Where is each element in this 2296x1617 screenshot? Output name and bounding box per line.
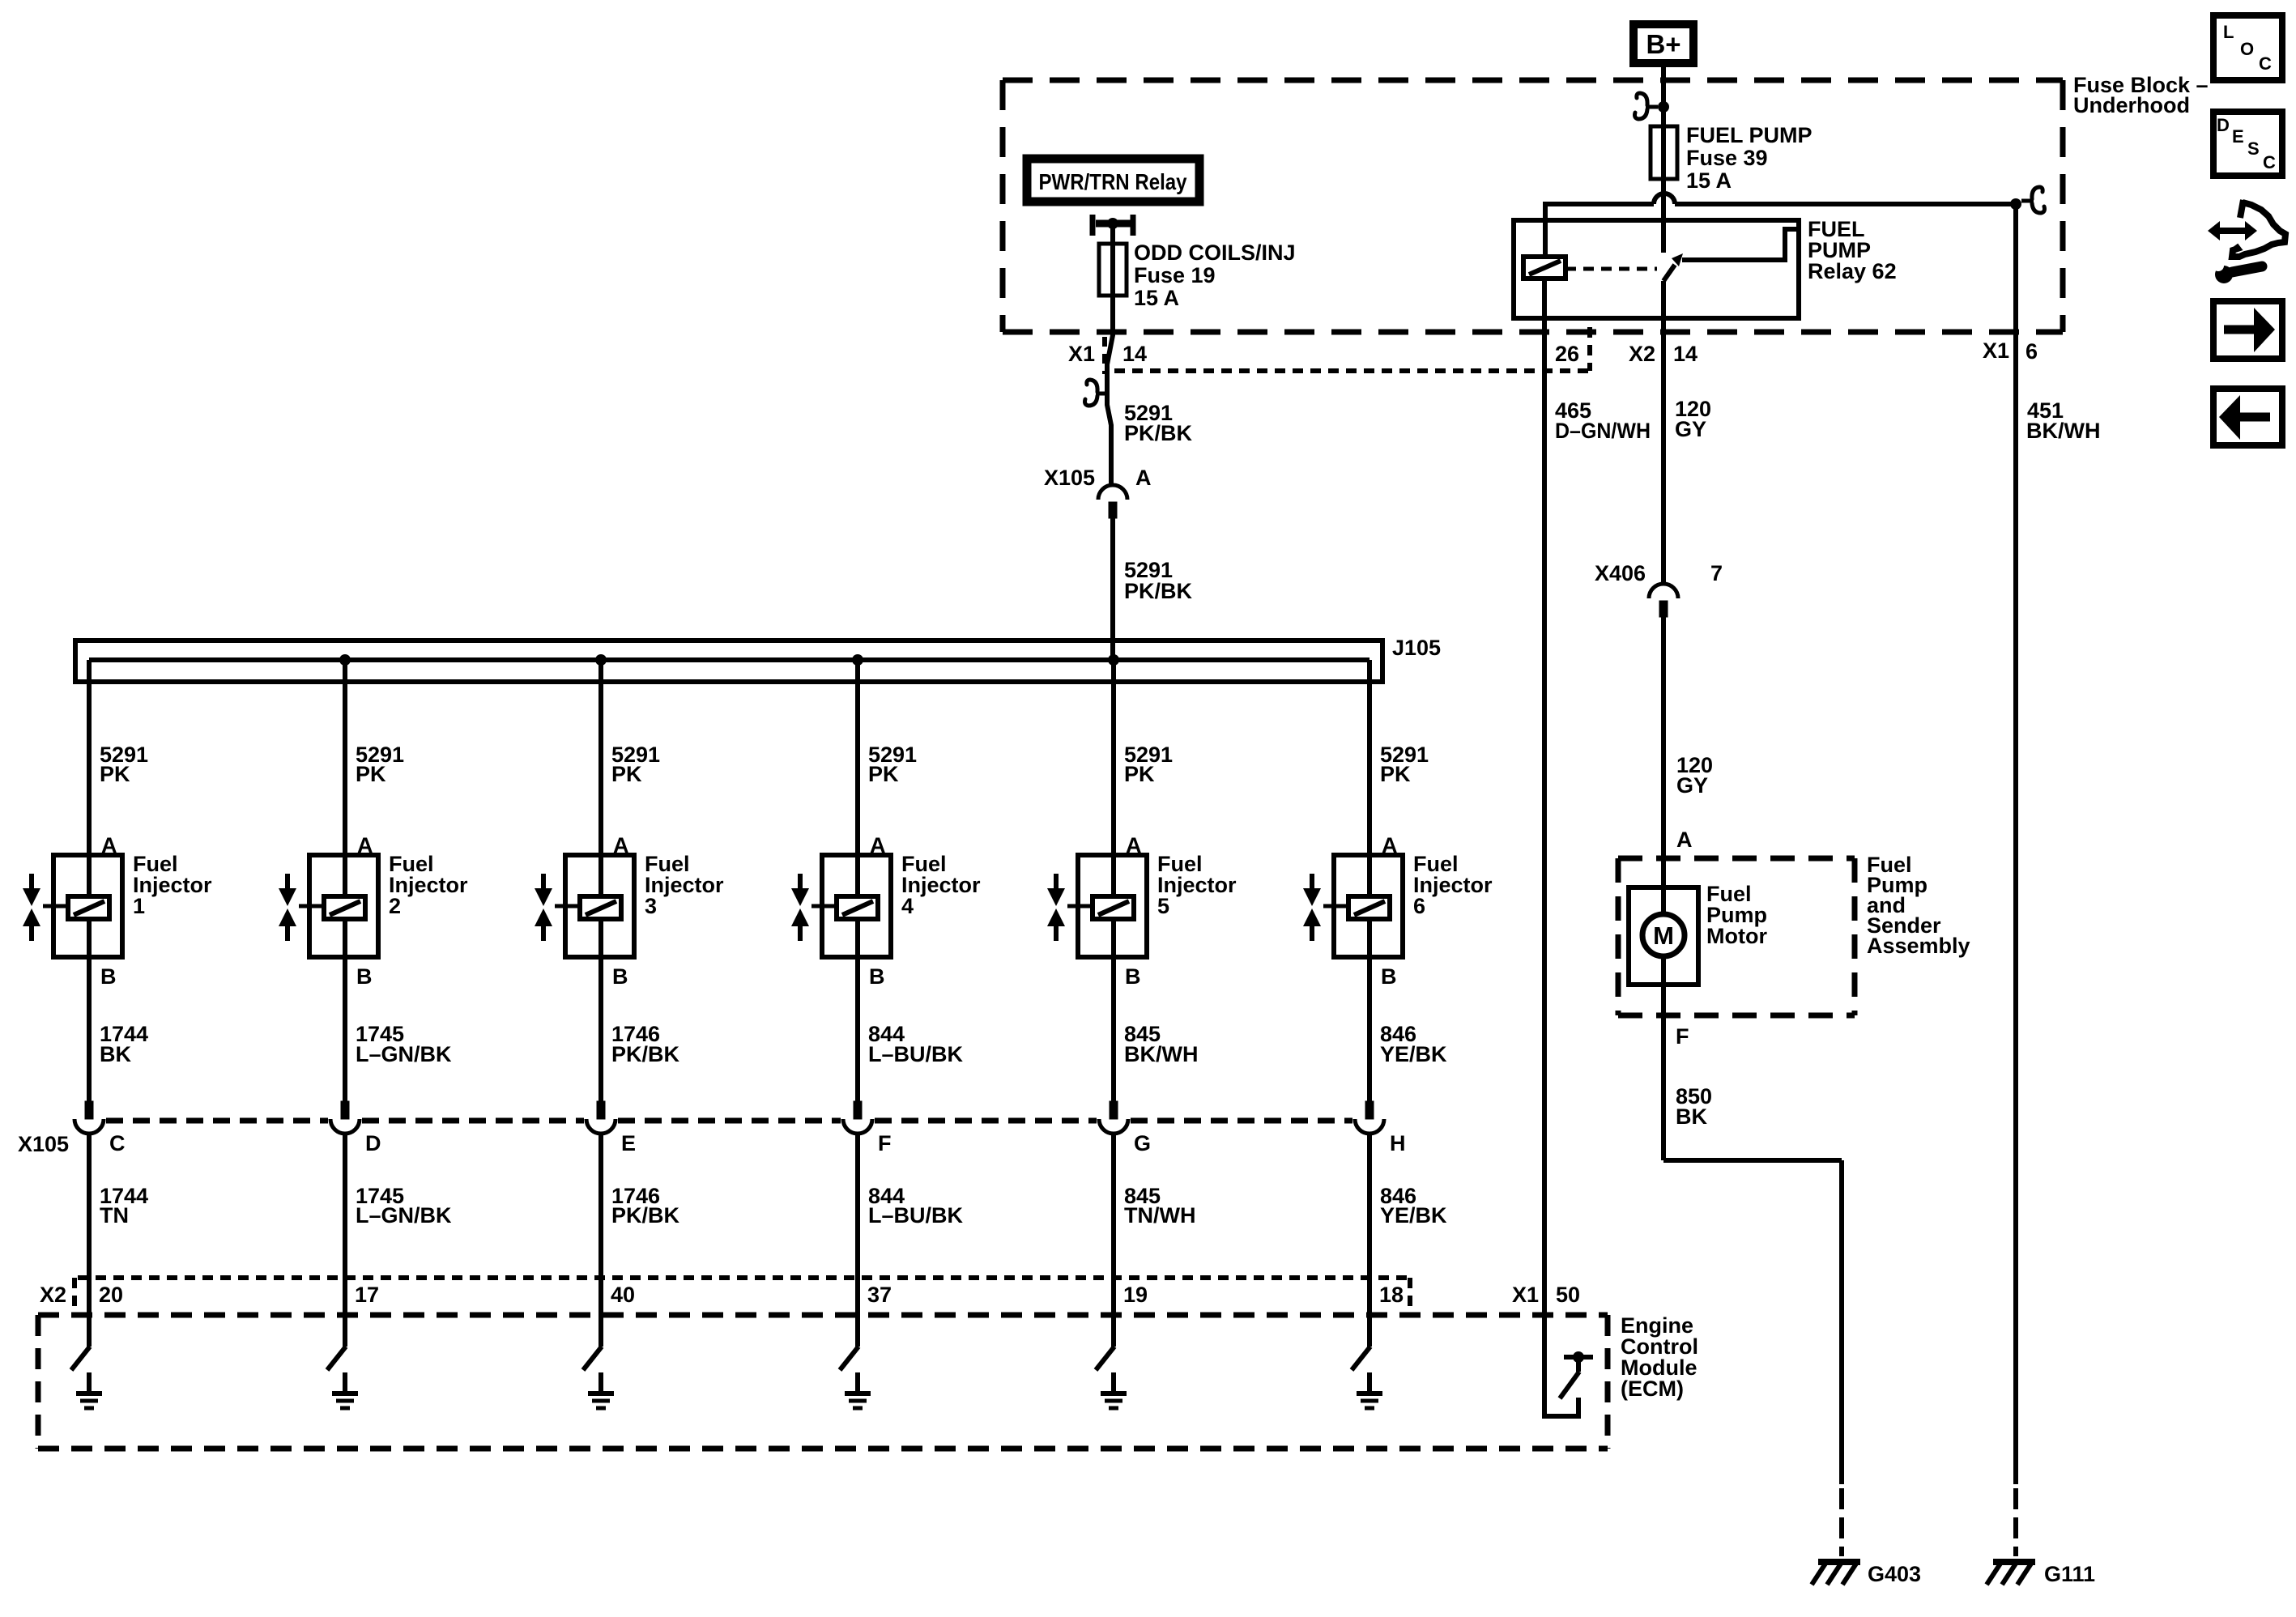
wrench icon [2213,260,2262,283]
svg-text:(ECM): (ECM) [1621,1377,1684,1401]
wire injector 5 to X105, circuit 845 BK/WH [1111,957,1116,1101]
motor M circle [1642,914,1685,956]
wire X105-E to ECM, circuit 1746 PK/BK [598,1134,603,1347]
fuel injector 2 body [309,855,378,957]
ECM connector dotted pin line [75,1278,1410,1310]
label 845 TN/WH [1124,1184,1195,1228]
wire injector 2 to X105, circuit 1745 L–GN/BK [343,957,347,1101]
wire relay terminal to fuse 19 [1110,223,1115,244]
svg-text:X2: X2 [40,1283,66,1307]
svg-text:GY: GY [1676,773,1708,798]
svg-text:GY: GY [1675,417,1706,441]
connector X105 pin H symbol [1355,1101,1406,1155]
ECM pin 20 label [99,1283,123,1307]
pin A label injector 3 [613,833,629,857]
label 451 BK/WH [2026,398,2100,443]
svg-text:D: D [365,1131,381,1155]
splice hook on 5291 wire [1085,380,1109,406]
svg-text:B+: B+ [1646,29,1680,59]
ECM driver switch blade col 3 [583,1347,602,1370]
back arrow icon [2213,389,2282,445]
Fuel Pump and Sender Assembly dashed box [1618,858,1855,1015]
dashed wire to ground G111 [2013,1488,2018,1556]
label 1744 TN [100,1184,148,1228]
label ODD COILS/INJ Fuse 19 15 A [1134,240,1296,310]
svg-text:PK: PK [611,762,642,786]
svg-text:A: A [1676,828,1693,852]
label Fuse Block - Underhood [2073,73,2209,117]
svg-text:1: 1 [133,894,145,918]
relay output terminal symbol [1093,215,1133,236]
label X105 bottom row [18,1132,69,1156]
wire J105 to fuel injector 6, circuit 5291 PK [1367,660,1372,855]
DESC navigation icon [2213,112,2282,176]
svg-text:Fuse 19: Fuse 19 [1134,263,1216,287]
svg-text:E: E [2232,126,2244,147]
pin label 26 with dotted corner [1555,342,1579,366]
wire B+ down to fuse 39 [1661,67,1666,126]
svg-text:PK: PK [100,762,130,786]
pin B label injector 2 [356,964,373,989]
label Fuel Pump and Sender Assembly [1867,853,1970,958]
svg-text:BK/WH: BK/WH [1124,1042,1198,1066]
double arrow icon [2208,221,2257,240]
svg-text:6: 6 [2026,339,2038,364]
label 846 YE/BK [1380,1022,1447,1066]
label 5291 PK/BK upper [1124,401,1193,445]
ground G403 [1812,1562,1921,1586]
svg-text:C: C [109,1131,126,1155]
wire X105-H to ECM, circuit 846 YE/BK [1367,1134,1372,1347]
wire fuse 39 down to relay switch [1661,194,1666,253]
injector 6 solenoid coil [1348,896,1390,919]
pin A label fuel pump [1676,828,1693,852]
pin label X1 6 at right [1983,338,2038,364]
wire fuse 19 to connector X105 pin A, circuit 5291 PK/BK [1107,296,1113,486]
svg-text:14: 14 [1122,342,1147,366]
label Fuel Pump Motor [1706,882,1767,948]
LOC navigation icon [2213,15,2282,80]
label Fuel Injector 2 [389,852,468,918]
dashed wire to ground G403 [1839,1488,1844,1556]
svg-text:X105: X105 [1044,466,1095,490]
svg-text:O: O [2240,39,2254,59]
svg-text:BK/WH: BK/WH [2026,419,2100,443]
fuel injector 1 body [53,855,122,957]
svg-text:18: 18 [1379,1283,1404,1307]
label 465 D-GN/WH [1555,398,1651,443]
label 120 GY lower [1676,753,1713,798]
svg-text:L–GN/BK: L–GN/BK [356,1042,452,1066]
label X2 at ECM row [40,1283,66,1307]
ground symbol inside ECM col 2 [332,1372,358,1408]
fuse F39 FUEL PUMP 15A [1651,126,1677,194]
label 1745 L–GN/BK [356,1184,452,1228]
connector X105 pin E symbol [586,1101,636,1155]
junction dots on J105 bus [339,654,1119,666]
svg-text:15 A: 15 A [1686,168,1732,193]
svg-text:X1: X1 [1068,342,1095,366]
label 5291 PK col 6 [1380,743,1429,786]
label J105 [1392,636,1441,660]
svg-text:19: 19 [1123,1283,1148,1307]
label Fuel Injector 4 [901,852,981,918]
svg-text:F: F [878,1131,892,1155]
fuel injector 5 body [1078,855,1147,957]
svg-text:4: 4 [901,894,914,918]
wire injector 3 to X105, circuit 1746 PK/BK [598,957,603,1101]
svg-text:PK: PK [868,762,899,786]
ground symbol inside ECM col 1 [76,1372,102,1408]
fuse F19 ODD COILS/INJ 15A [1099,244,1127,296]
pin A label injector 4 [870,833,886,857]
svg-text:26: 26 [1555,342,1579,366]
svg-text:B: B [356,964,373,989]
svg-text:X406: X406 [1595,561,1646,585]
wire X1-6 to G111, circuit 451 BK/WH [2013,204,2018,1484]
ground symbol inside ECM col 5 [1101,1372,1127,1408]
svg-text:37: 37 [867,1283,892,1307]
wire X406 to fuel pump motor, circuit 120 GY [1661,617,1666,914]
svg-text:5: 5 [1157,894,1169,918]
ECM driver switch blade col 1 [71,1347,90,1370]
pin B label injector 6 [1381,964,1397,989]
svg-text:PK/BK: PK/BK [611,1203,680,1228]
svg-text:TN/WH: TN/WH [1124,1203,1195,1228]
splice pack J105 housing [75,640,1382,682]
svg-text:PWR/TRN Relay: PWR/TRN Relay [1039,169,1187,194]
svg-text:C: C [2259,53,2272,74]
injector 4 solenoid coil [837,896,878,919]
injector 6 valve symbol [1303,874,1348,941]
svg-text:E: E [621,1131,636,1155]
svg-text:PK/BK: PK/BK [1124,579,1193,603]
wire fuel pump to G403, circuit 850 BK [1663,956,1842,1484]
label 5291 PK col 4 [868,743,917,786]
pin A label injector 1 [101,833,117,857]
svg-text:FUEL PUMP: FUEL PUMP [1686,123,1813,147]
label 1746 PK/BK [611,1022,680,1066]
wire relay switch to fuel pump, circuit 120 GY [1661,281,1666,584]
svg-text:B: B [100,964,117,989]
svg-text:PK: PK [356,762,386,786]
svg-text:F: F [1676,1024,1689,1049]
svg-text:50: 50 [1556,1283,1580,1307]
label 5291 PK col 5 [1124,743,1173,786]
wire injector 4 to X105, circuit 844 L–BU/BK [855,957,860,1101]
svg-text:TN: TN [100,1203,129,1228]
svg-text:3: 3 [645,894,657,918]
injector 5 valve symbol [1047,874,1093,941]
ECM driver switch blade col 4 [840,1347,858,1370]
label 120 GY upper [1675,397,1711,441]
svg-text:H: H [1390,1131,1406,1155]
svg-text:B: B [869,964,885,989]
fuel pump motor box [1629,887,1698,985]
label Fuel Injector 1 [133,852,212,918]
label FUEL PUMP Fuse 39 15 A [1686,123,1813,193]
injector 5 solenoid coil [1093,896,1134,919]
connector X105 pin C symbol [75,1101,126,1155]
label Fuel Injector 5 [1157,852,1237,918]
ECM driver switch blade col 6 [1352,1347,1370,1370]
wire J105 to fuel injector 3, circuit 5291 PK [598,660,603,855]
svg-text:6: 6 [1413,894,1425,918]
ECM driver switch blade col 5 [1096,1347,1114,1370]
splice hook at B+ junction [1635,93,1670,119]
label 5291 PK col 2 [356,743,404,786]
pin B label injector 5 [1125,964,1141,989]
svg-text:Relay 62: Relay 62 [1808,259,1897,283]
label Fuel Injector 6 [1413,852,1493,918]
pin A label injector 2 [357,833,373,857]
PWR/TRN Relay label box [1027,159,1199,202]
svg-text:Assembly: Assembly [1867,934,1970,958]
svg-text:G: G [1134,1131,1151,1155]
ground symbol inside ECM col 3 [588,1372,614,1408]
ground G111 [1987,1562,2095,1586]
svg-text:A: A [1135,466,1152,490]
ECM pin 19 label [1123,1283,1148,1307]
svg-text:Underhood: Underhood [2073,93,2190,117]
label 850 BK [1676,1084,1712,1129]
label 5291 PK col 3 [611,743,660,786]
pin B label injector 3 [612,964,628,989]
svg-text:Motor: Motor [1706,924,1767,948]
ground symbol inside ECM col 4 [845,1372,871,1408]
injector 3 valve symbol [535,874,580,941]
svg-text:PK: PK [1380,762,1411,786]
svg-text:X105: X105 [18,1132,69,1156]
fuel injector 6 body [1334,855,1403,957]
injector 4 valve symbol [791,874,837,941]
label FUEL PUMP Relay 62 [1808,217,1897,283]
dashed connector line X105 row [106,1118,1352,1124]
connector X105 pin A symbol [1044,466,1152,518]
label 844 L–BU/BK [868,1022,964,1066]
junction dot at X1-6 drop [2010,187,2045,213]
pin label X1 14 at fuse block [1068,337,1147,374]
svg-text:L–BU/BK: L–BU/BK [868,1042,964,1066]
pin B label injector 1 [100,964,117,989]
relay coil to switch dashed link [1565,267,1657,271]
connector X105 pin G symbol [1099,1101,1151,1155]
pin F label fuel pump [1676,1024,1689,1049]
connector X105 pin D symbol [330,1101,381,1155]
svg-text:40: 40 [611,1283,635,1307]
wire X105-G to ECM, circuit 845 TN/WH [1111,1134,1116,1347]
svg-text:X1: X1 [1983,338,2009,363]
wire X105-C to ECM, circuit 1744 TN [87,1134,92,1347]
connector X406 pin 7 symbol [1595,561,1723,617]
wire X105-A to J105 splice, circuit 5291 PK/BK [1110,518,1115,660]
FUEL PUMP Relay 62 box [1514,220,1799,318]
svg-text:ODD COILS/INJ: ODD COILS/INJ [1134,240,1296,265]
svg-text:20: 20 [99,1283,123,1307]
horizontal wire relay coil to X1-6 junction [1545,194,2016,257]
svg-text:G403: G403 [1868,1562,1921,1586]
fuel injector 3 body [565,855,634,957]
svg-text:7: 7 [1710,561,1723,585]
svg-text:J105: J105 [1392,636,1441,660]
label 1745 L–GN/BK [356,1022,452,1066]
injector 1 solenoid coil [68,896,109,919]
label 845 BK/WH [1124,1022,1198,1066]
svg-text:L–GN/BK: L–GN/BK [356,1203,452,1228]
svg-text:S: S [2247,138,2260,159]
pin label X1 50 [1512,1283,1580,1307]
svg-text:X1: X1 [1512,1283,1539,1307]
wire relay coil to ECM pin 50, circuit 465 D-GN/WH [1542,279,1547,1419]
svg-text:YE/BK: YE/BK [1380,1203,1447,1228]
pin label X2 14 under relay switch [1629,342,1698,366]
label Engine Control Module (ECM) [1621,1313,1698,1401]
relay fixed contact [1682,229,1797,260]
svg-text:G111: G111 [2044,1562,2095,1586]
pin B label injector 4 [869,964,885,989]
fuse block - underhood dashed box [1003,80,2063,332]
ECM pin 40 label [611,1283,635,1307]
svg-text:B: B [612,964,628,989]
svg-text:17: 17 [355,1283,379,1307]
label 1744 BK [100,1022,148,1066]
ECM driver switch blade col 2 [327,1347,346,1370]
relay switch blade with arrow [1663,253,1683,281]
pin A label injector 5 [1126,833,1142,857]
label 5291 PK/BK lower [1124,558,1193,603]
svg-text:BK: BK [1676,1104,1707,1129]
fuel injector 4 body [822,855,891,957]
label 5291 PK col 1 [100,743,148,786]
svg-text:L: L [2223,22,2234,42]
Engine Control Module dashed box [38,1315,1608,1449]
svg-text:PK: PK [1124,762,1155,786]
pin A label injector 6 [1382,833,1398,857]
wire J105 to fuel injector 1, circuit 5291 PK [87,660,92,855]
wire injector 6 to X105, circuit 846 YE/BK [1367,957,1372,1101]
svg-text:Fuse 39: Fuse 39 [1686,146,1768,170]
injector 2 solenoid coil [324,896,365,919]
svg-text:14: 14 [1673,342,1698,366]
wire injector 1 to X105, circuit 1744 BK [87,957,92,1101]
wire J105 to fuel injector 4, circuit 5291 PK [855,660,860,855]
injector 2 valve symbol [279,874,324,941]
svg-text:D–GN/WH: D–GN/WH [1555,419,1651,443]
connector X105 pin F symbol [843,1101,892,1155]
wire X105-F to ECM, circuit 844 L–BU/BK [855,1134,860,1347]
svg-text:2: 2 [389,894,401,918]
svg-text:PK/BK: PK/BK [1124,421,1193,445]
forward arrow icon [2213,301,2282,359]
injector 1 valve symbol [23,874,68,941]
J105 bus wire [89,657,1370,662]
dotted connector tie line X1-14 to 26 [1114,327,1590,371]
injector 3 solenoid coil [580,896,621,919]
ECM fuel pump relay driver [1544,1351,1593,1419]
label 844 L–BU/BK [868,1184,964,1228]
label 846 YE/BK [1380,1184,1447,1228]
ECM pin 17 label [355,1283,379,1307]
svg-text:C: C [2263,152,2276,172]
ECM pin 37 label [867,1283,892,1307]
B+ battery feed terminal [1634,24,1693,63]
wire J105 to fuel injector 2, circuit 5291 PK [343,660,347,855]
svg-text:D: D [2217,115,2230,135]
label 1746 PK/BK [611,1184,680,1228]
svg-text:YE/BK: YE/BK [1380,1042,1447,1066]
svg-text:B: B [1125,964,1141,989]
svg-text:BK: BK [100,1042,131,1066]
svg-text:L–BU/BK: L–BU/BK [868,1203,964,1228]
label Fuel Injector 3 [645,852,724,918]
ground symbol inside ECM col 6 [1357,1372,1382,1408]
wire X105-D to ECM, circuit 1745 L–GN/BK [343,1134,347,1347]
vehicle outline icon [2232,200,2285,257]
wire J105 to fuel injector 5, circuit 5291 PK [1111,660,1116,855]
svg-text:X2: X2 [1629,342,1655,366]
relay coil [1523,257,1565,279]
svg-text:15 A: 15 A [1134,286,1179,310]
ECM pin 18 label [1379,1283,1404,1307]
svg-text:B: B [1381,964,1397,989]
svg-text:PK/BK: PK/BK [611,1042,680,1066]
svg-text:M: M [1653,921,1674,950]
